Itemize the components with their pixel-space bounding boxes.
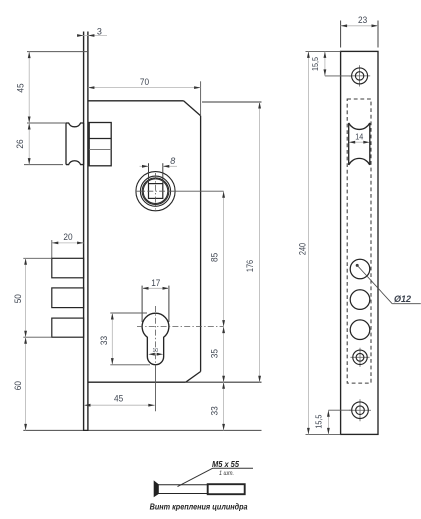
svg-text:35: 35 — [209, 349, 219, 358]
svg-text:Ø12: Ø12 — [394, 294, 412, 304]
svg-text:3: 3 — [97, 27, 102, 37]
svg-text:45: 45 — [114, 394, 123, 404]
svg-text:14: 14 — [355, 131, 363, 141]
svg-text:70: 70 — [140, 77, 149, 87]
svg-text:10: 10 — [153, 348, 159, 354]
svg-text:15,5: 15,5 — [314, 414, 324, 428]
svg-text:85: 85 — [209, 253, 219, 262]
svg-text:М5 x 55: М5 x 55 — [212, 460, 239, 469]
svg-text:50: 50 — [13, 294, 23, 303]
svg-text:20: 20 — [63, 232, 72, 242]
svg-text:26: 26 — [15, 139, 25, 148]
svg-text:33: 33 — [209, 406, 219, 415]
svg-text:60: 60 — [13, 381, 23, 390]
svg-text:23: 23 — [358, 15, 367, 25]
svg-text:1 шт.: 1 шт. — [219, 470, 234, 477]
svg-text:176: 176 — [245, 260, 255, 272]
svg-text:15,5: 15,5 — [310, 57, 320, 71]
svg-text:33: 33 — [99, 336, 109, 345]
svg-text:240: 240 — [297, 243, 307, 255]
svg-text:8: 8 — [170, 156, 175, 166]
svg-text:Винт крепления цилиндра: Винт крепления цилиндра — [150, 502, 248, 511]
svg-text:17: 17 — [151, 278, 160, 288]
svg-text:45: 45 — [16, 83, 26, 92]
